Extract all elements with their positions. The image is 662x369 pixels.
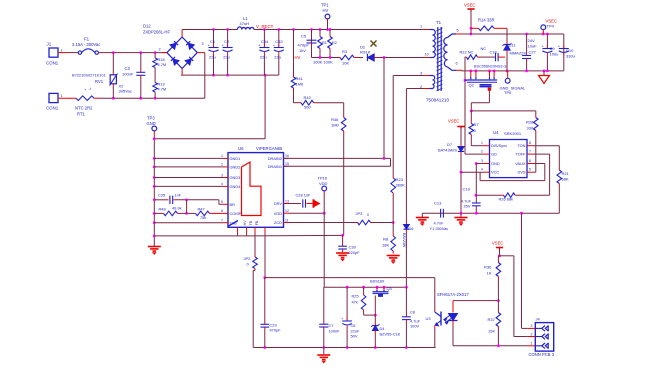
svg-text:0: 0	[474, 128, 477, 133]
svg-text:750841210: 750841210	[426, 98, 449, 103]
svg-text:22u: 22u	[223, 55, 230, 60]
svg-text:1M0: 1M0	[296, 82, 305, 87]
svg-text:22u: 22u	[260, 55, 267, 60]
svg-text:+: +	[558, 43, 561, 48]
svg-text:C18: C18	[490, 50, 497, 55]
svg-text:Q2: Q2	[469, 83, 475, 88]
svg-text:HV: HV	[323, 8, 329, 13]
svg-text:VSEC: VSEC	[464, 3, 475, 8]
svg-text:F1: F1	[84, 37, 90, 42]
svg-text:2: 2	[531, 332, 533, 336]
svg-text:220pF: 220pF	[349, 250, 361, 255]
svg-text:VDD: VDD	[274, 211, 282, 216]
svg-text:15: 15	[285, 162, 289, 166]
svg-text:6: 6	[456, 62, 458, 66]
svg-text:CON1: CON1	[46, 106, 59, 111]
svg-text:C5: C5	[301, 34, 307, 39]
svg-text:C3: C3	[125, 66, 131, 71]
svg-text:D11: D11	[509, 43, 517, 48]
svg-text:C33: C33	[275, 39, 283, 44]
svg-text:100u: 100u	[550, 52, 559, 57]
svg-text:GND1: GND1	[230, 156, 241, 161]
svg-text:3: 3	[420, 72, 422, 76]
svg-text:2: 2	[481, 150, 483, 154]
svg-text:TB: TB	[249, 220, 253, 225]
svg-text:+: +	[84, 87, 87, 92]
svg-text:1M0: 1M0	[331, 123, 340, 128]
svg-text:C28 1nF: C28 1nF	[296, 193, 312, 198]
svg-text:7: 7	[221, 219, 223, 223]
svg-text:100nF: 100nF	[329, 329, 341, 334]
svg-text:TP4: TP4	[547, 24, 555, 29]
svg-text:R48: R48	[159, 207, 166, 212]
svg-text:C35: C35	[158, 193, 165, 198]
svg-text:6: 6	[529, 159, 531, 163]
svg-text:TAB: TAB	[230, 220, 238, 225]
svg-text:TON: TON	[517, 143, 525, 148]
svg-text:JP2: JP2	[244, 256, 252, 261]
svg-text:C9: C9	[550, 46, 556, 51]
svg-text:DRAIN1: DRAIN1	[268, 164, 282, 169]
svg-text:100K 100K: 100K 100K	[313, 60, 333, 65]
svg-text:Q3: Q3	[387, 286, 392, 291]
svg-text:12: 12	[285, 209, 289, 213]
svg-text:R42: R42	[304, 95, 312, 100]
svg-text:D7: D7	[447, 142, 453, 147]
svg-text:C2: C2	[224, 39, 230, 44]
svg-text:C6: C6	[351, 323, 356, 328]
svg-text:R7: R7	[474, 122, 480, 127]
svg-text:8: 8	[529, 141, 531, 145]
svg-text:DVS: DVS	[518, 170, 526, 175]
svg-text:+: +	[541, 43, 544, 48]
svg-text:R36: R36	[484, 265, 492, 270]
svg-text:R1: R1	[322, 41, 327, 45]
svg-text:C30: C30	[349, 245, 357, 250]
svg-text:C13: C13	[434, 201, 442, 206]
svg-text:MMAZ24: MMAZ24	[510, 51, 527, 56]
svg-text:-t: -t	[89, 87, 91, 91]
svg-text:R23: R23	[396, 177, 404, 182]
svg-text:TOFF: TOFF	[515, 152, 526, 157]
svg-text:4.7M: 4.7M	[158, 62, 167, 67]
svg-text:DIS/Sync: DIS/Sync	[491, 143, 507, 148]
svg-text:22u: 22u	[209, 55, 216, 60]
svg-text:R25: R25	[352, 294, 359, 299]
svg-text:R22 NC: R22 NC	[460, 50, 474, 55]
svg-text:3: 3	[481, 159, 483, 163]
svg-text:GD: GD	[491, 152, 497, 157]
svg-text:330u: 330u	[566, 54, 575, 59]
svg-text:49.9k: 49.9k	[172, 206, 182, 211]
svg-text:ZCD: ZCD	[274, 220, 282, 225]
svg-text:100nF: 100nF	[122, 72, 134, 77]
svg-text:24V: 24V	[528, 38, 535, 43]
svg-text:GND3: GND3	[230, 175, 241, 180]
svg-text:GND: GND	[491, 161, 500, 166]
svg-text:10K: 10K	[342, 61, 349, 66]
svg-text:BSS169: BSS169	[370, 278, 384, 283]
svg-text:C10: C10	[566, 48, 574, 53]
svg-text:3.15A - 300Vac: 3.15A - 300Vac	[72, 42, 100, 47]
svg-text:VDD: VDD	[319, 181, 328, 186]
svg-text:2: 2	[221, 163, 223, 167]
svg-text:J1: J1	[47, 42, 52, 47]
svg-text:CON1: CON1	[46, 61, 59, 66]
svg-text:13: 13	[285, 199, 289, 203]
svg-text:V_RECT: V_RECT	[256, 24, 274, 29]
svg-text:VCC: VCC	[491, 170, 499, 175]
svg-text:3: 3	[531, 324, 533, 328]
svg-text:BSC056N10NS3 G: BSC056N10NS3 G	[474, 65, 507, 69]
svg-text:18K: 18K	[382, 243, 389, 248]
svg-text:1: 1	[221, 154, 223, 158]
svg-text:U6: U6	[238, 146, 244, 151]
svg-text:47uH: 47uH	[240, 21, 250, 26]
svg-text:560: 560	[304, 105, 311, 110]
svg-text:22u: 22u	[274, 55, 281, 60]
svg-text:VIPERGAN65: VIPERGAN65	[256, 146, 283, 151]
svg-text:HV: HV	[243, 220, 247, 226]
svg-text:470pF: 470pF	[270, 328, 282, 333]
svg-text:BAT43W/S: BAT43W/S	[438, 148, 457, 153]
svg-text:4: 4	[481, 168, 483, 172]
svg-text:1: 1	[61, 94, 63, 98]
svg-text:C19: C19	[463, 187, 471, 192]
svg-text:RV1: RV1	[95, 79, 104, 84]
svg-text:R28: R28	[526, 120, 534, 125]
svg-text:U4: U4	[493, 130, 499, 135]
svg-text:R8: R8	[383, 237, 389, 242]
svg-text:R3: R3	[342, 49, 348, 54]
svg-text:J4: J4	[536, 317, 541, 322]
svg-text:7: 7	[529, 150, 531, 154]
svg-text:DRV: DRV	[274, 201, 283, 206]
svg-text:4.7M: 4.7M	[158, 87, 167, 92]
svg-text:330: 330	[527, 126, 534, 131]
svg-text:BR: BR	[230, 202, 236, 207]
svg-text:4.7nF: 4.7nF	[434, 221, 445, 226]
svg-text:25V: 25V	[464, 204, 471, 209]
svg-text:50V: 50V	[351, 334, 358, 339]
svg-text:TP16: TP16	[318, 176, 328, 181]
svg-text:B72210S0271K101: B72210S0271K101	[72, 73, 106, 78]
svg-text:1K: 1K	[487, 271, 492, 276]
svg-text:R46: R46	[331, 117, 339, 122]
svg-text:16: 16	[285, 154, 289, 158]
svg-text:4: 4	[221, 182, 223, 186]
svg-text:DRAIN2: DRAIN2	[268, 156, 282, 161]
svg-text:C34: C34	[261, 39, 269, 44]
svg-text:305Vac: 305Vac	[119, 89, 132, 94]
svg-text:3: 3	[221, 173, 223, 177]
svg-text:BAV23W: BAV23W	[402, 233, 406, 248]
svg-text:1kV: 1kV	[299, 48, 306, 53]
svg-text:1nF: 1nF	[175, 193, 182, 198]
svg-text:TP6: TP6	[504, 90, 512, 95]
svg-text:68K: 68K	[562, 177, 569, 182]
svg-text:0: 0	[367, 213, 369, 217]
svg-text:C1: C1	[210, 39, 216, 44]
svg-text:10uF: 10uF	[528, 44, 538, 49]
svg-text:D4: D4	[380, 326, 386, 331]
svg-text:GND2: GND2	[230, 165, 241, 170]
svg-text:Y1 250Vac: Y1 250Vac	[430, 226, 449, 231]
svg-text:TP3: TP3	[147, 116, 155, 121]
svg-text:NTC 2R2: NTC 2R2	[75, 106, 93, 111]
svg-text:1: 1	[61, 49, 63, 53]
svg-text:T1: T1	[436, 20, 442, 25]
svg-text:U3: U3	[426, 316, 432, 321]
svg-text:47k: 47k	[352, 300, 358, 305]
svg-text:HV: HV	[295, 55, 301, 60]
svg-text:R26 68k: R26 68k	[499, 197, 514, 202]
svg-text:C27: C27	[529, 50, 537, 55]
svg-text:CONN PCB 3: CONN PCB 3	[529, 352, 555, 357]
svg-text:3: 3	[202, 42, 204, 46]
svg-text:R21: R21	[562, 171, 570, 176]
svg-text:COMP: COMP	[230, 211, 242, 216]
svg-text:5: 5	[529, 168, 531, 172]
svg-text:5: 5	[221, 200, 223, 204]
svg-text:R41: R41	[296, 76, 304, 81]
svg-text:C8: C8	[410, 310, 415, 315]
svg-text:R2: R2	[332, 41, 337, 45]
svg-text:D6: D6	[409, 226, 414, 231]
svg-text:JP3: JP3	[356, 211, 364, 216]
svg-text:RT1: RT1	[77, 112, 86, 117]
svg-text:470pF: 470pF	[298, 43, 310, 48]
svg-text:R37: R37	[488, 317, 496, 322]
svg-text:+: +	[341, 316, 344, 321]
svg-text:75k: 75k	[200, 215, 206, 220]
svg-text:1: 1	[531, 342, 533, 346]
svg-text:TP1: TP1	[321, 3, 329, 8]
svg-text:FB: FB	[255, 220, 259, 225]
svg-text:1: 1	[481, 141, 483, 145]
svg-text:GND: GND	[147, 121, 156, 126]
svg-text:BZV55-C18: BZV55-C18	[380, 332, 400, 337]
svg-text:VAUX: VAUX	[515, 161, 526, 166]
svg-text:0: 0	[247, 262, 250, 267]
svg-text:11: 11	[285, 218, 289, 222]
svg-text:VSEC: VSEC	[492, 241, 503, 246]
svg-text:NC: NC	[481, 46, 487, 51]
svg-text:C7: C7	[329, 323, 334, 328]
svg-text:SFH617A-2X017: SFH617A-2X017	[437, 292, 469, 297]
svg-text:VSEC: VSEC	[448, 119, 459, 124]
svg-text:6: 6	[221, 209, 223, 213]
svg-text:2: 2	[159, 48, 161, 52]
svg-text:100V: 100V	[410, 324, 419, 329]
svg-text:10: 10	[425, 53, 429, 57]
svg-text:SRK2001: SRK2001	[504, 131, 522, 136]
svg-text:5: 5	[457, 29, 459, 33]
svg-text:1: 1	[420, 25, 422, 29]
svg-text:360K: 360K	[396, 183, 406, 188]
svg-text:D12: D12	[143, 24, 151, 29]
svg-text:R47: R47	[198, 207, 205, 212]
svg-text:GND4: GND4	[230, 184, 242, 189]
svg-text:RS1K: RS1K	[360, 50, 371, 55]
svg-text:Z4DP208L-HF: Z4DP208L-HF	[143, 30, 170, 35]
svg-text:15K: 15K	[488, 329, 495, 334]
svg-text:R14 33R: R14 33R	[478, 18, 495, 23]
